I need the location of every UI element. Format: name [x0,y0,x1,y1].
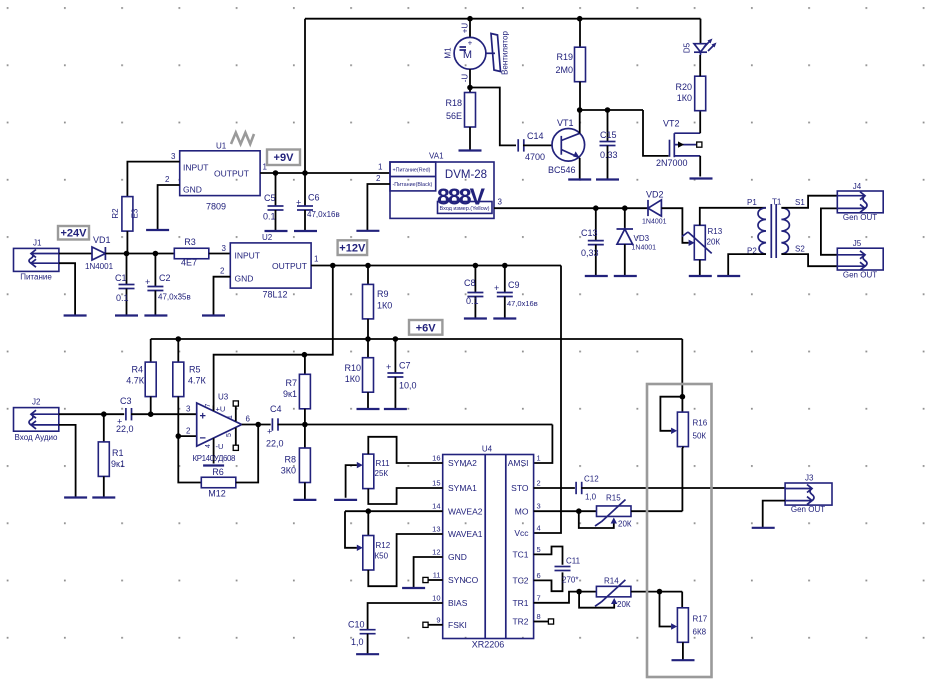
svg-text:2: 2 [376,174,381,183]
svg-text:22,0: 22,0 [266,439,284,449]
wire R13 gnd [699,260,701,276]
resistor R19 [555,19,585,110]
svg-text:TR1: TR1 [512,598,528,608]
ground R11 [334,499,357,501]
capacitor C12 [534,475,786,502]
svg-text:C8: C8 [464,278,476,288]
svg-text:3: 3 [537,502,541,511]
potentiometer R11 [346,437,443,504]
transistor VT1 BC546 [548,118,585,175]
wire collector node rail [577,107,669,156]
svg-text:М12: М12 [208,489,226,499]
svg-text:BIAS: BIAS [448,598,468,608]
svg-text:D5: D5 [683,42,692,53]
capacitor C11 [534,547,581,592]
svg-text:SYNCO: SYNCO [448,575,479,585]
svg-text:К50: К50 [375,552,389,561]
wire R16 bottom [681,448,683,511]
svg-text:TC2: TC2 [512,576,528,586]
svg-text:+6V: +6V [416,322,437,334]
svg-text:R19: R19 [556,52,573,62]
svg-text:0.1: 0.1 [116,293,129,303]
svg-text:4700: 4700 [525,152,545,162]
svg-text:16: 16 [432,454,440,463]
svg-text:13: 13 [432,525,440,534]
svg-text:1К0: 1К0 [345,374,360,384]
svg-text:9к1: 9к1 [283,389,297,399]
ground R8 [293,499,316,501]
transformer T1 [747,198,805,259]
svg-text:47,0х16в: 47,0х16в [507,299,538,308]
capacitor C9 [494,266,538,319]
svg-text:SYMA1: SYMA1 [448,483,477,493]
svg-text:VT1: VT1 [557,118,574,128]
svg-text:VA1: VA1 [429,152,444,161]
ground VD3 [614,275,637,277]
regulator U1 7809 [165,142,267,212]
resistor R4 [126,339,156,414]
svg-text:R15: R15 [606,494,621,503]
ground C1 [115,314,138,316]
svg-text:WAVEA2: WAVEA2 [448,506,483,516]
wire U1 gnd [158,185,180,230]
net +24V label [58,226,89,240]
wire +12V to opamp supply [214,266,333,411]
svg-text:GND: GND [235,274,254,284]
resistor R1 [98,414,125,497]
ground C7 [384,408,407,410]
svg-text:5: 5 [537,545,541,554]
svg-text:GND: GND [448,552,467,562]
ground C2 [144,314,167,316]
wire +24V node [105,251,174,257]
svg-text:1К0: 1К0 [377,301,392,311]
resistor R2 [111,197,140,254]
terminal SYNCO [423,577,443,582]
resistor R5 [173,339,207,439]
heatsink icon [231,133,254,144]
svg-text:+12V: +12V [339,243,366,255]
LED D5 [683,19,717,55]
svg-text:C12: C12 [584,475,599,484]
ground J2 [64,496,87,498]
wire R15 to R16 [631,510,682,512]
svg-text:R10: R10 [344,363,361,373]
svg-text:Gen OUT: Gen OUT [843,271,877,280]
svg-text:C5: C5 [264,193,276,203]
connector J1 Питание [14,239,59,282]
svg-text:1,0: 1,0 [585,493,597,502]
capacitor C5 [263,173,284,231]
svg-text:C15: C15 [600,130,617,140]
svg-text:R5: R5 [189,365,201,375]
ground U3 [203,464,224,466]
connector J4 Gen OUT [837,182,883,222]
wire M1 to C14 [470,88,516,146]
svg-text:Gen OUT: Gen OUT [843,213,877,222]
svg-text:TR2: TR2 [512,617,528,627]
wire +9V top rail [305,16,701,173]
wire U1 input [127,162,179,197]
svg-text:R7: R7 [285,378,297,388]
svg-text:VD3: VD3 [634,234,650,243]
svg-text:2N7000: 2N7000 [656,158,688,168]
svg-text:8: 8 [537,612,541,621]
wire feedback [178,436,201,482]
svg-text:+: + [468,39,473,48]
capacitor C13 [581,208,604,276]
node M1-R18 [467,85,473,91]
svg-text:STO: STO [511,483,529,493]
svg-text:1,0: 1,0 [351,637,364,647]
resistor R6 [201,467,236,499]
ground U2 [202,314,225,316]
resistor R8 [281,425,311,500]
wire WAVEA2 [345,508,443,551]
svg-text:47,0х35в: 47,0х35в [158,293,191,302]
svg-text:J1: J1 [33,239,42,248]
svg-text:20К: 20К [618,520,632,529]
svg-text:50К: 50К [693,432,707,441]
wire R17 gnd [682,642,684,660]
svg-text:C7: C7 [399,361,411,371]
svg-text:47,0х16в: 47,0х16в [307,210,340,219]
svg-text:7: 7 [205,403,212,407]
svg-text:4.7К: 4.7К [126,376,145,386]
capacitor C10 [348,620,376,655]
svg-text:1: 1 [537,454,541,463]
svg-text:R18: R18 [445,98,462,108]
motor M1 fan [444,19,510,93]
resistor R18 [445,93,475,128]
svg-text:1N4001: 1N4001 [642,219,667,226]
svg-text:10: 10 [432,594,440,603]
svg-text:C10: C10 [348,620,365,630]
svg-text:1К0: 1К0 [677,93,692,103]
ground C13 [585,275,608,277]
ground VA1 [356,230,379,232]
svg-text:R13: R13 [708,227,723,236]
svg-text:U2: U2 [262,233,273,242]
svg-text:R17: R17 [693,615,708,624]
svg-text:1: 1 [378,163,383,172]
svg-text:25К: 25К [375,469,389,478]
potentiometer R12 [363,511,443,586]
svg-text:4Е7: 4Е7 [181,258,197,268]
wire measure line [494,205,648,211]
svg-text:-Питание(Black): -Питание(Black) [393,182,433,188]
svg-text:+: + [267,427,272,437]
resistor R3 [174,237,230,268]
svg-text:0.1: 0.1 [466,296,479,306]
svg-text:R1: R1 [112,448,124,458]
ground P2 [717,275,740,277]
connector J2 Вход Аудио [14,398,59,443]
wire MO node [534,508,597,514]
diode VD2 1N4001 [642,190,667,226]
capacitor C7 [386,339,417,409]
svg-text:R14: R14 [604,577,619,586]
svg-text:C13: C13 [581,228,598,238]
wire C14 to VT1 base [523,144,552,146]
ground U4 [402,587,425,589]
wire +9V output rail [260,170,390,176]
svg-text:C3: C3 [120,396,132,406]
svg-text:0.33: 0.33 [600,150,618,160]
svg-text:4: 4 [537,524,541,533]
svg-text:14: 14 [432,502,440,511]
svg-text:+: + [296,197,301,207]
wire VT1 emitter [579,158,581,180]
wire R13 top to P1 [700,208,766,226]
op-amp U3 КР140УД608 [186,393,250,464]
capacitor C14 [518,131,545,162]
wire J4 to J5 [821,208,837,254]
ground R1 [92,496,115,498]
svg-text:R4: R4 [131,365,143,375]
svg-text:1: 1 [227,415,234,419]
wire pin2 [178,435,196,437]
resistor R9 [363,266,393,340]
wire VA1 pin2 gnd [367,184,390,231]
svg-text:3: 3 [498,198,503,207]
transistor VT2 2N7000 [656,111,702,177]
connector J5 Gen OUT [837,239,883,280]
ground C5 [265,230,288,232]
ground VT1 [568,178,591,180]
capacitor C3 [116,396,134,434]
svg-text:R2: R2 [111,208,120,219]
meter VA1 DVM-28 [376,152,502,219]
svg-text:10,0: 10,0 [399,381,417,391]
terminal TR2 [534,619,554,624]
ground VT2 [690,177,713,179]
svg-text:P1: P1 [747,198,757,207]
svg-text:VD1: VD1 [93,235,111,245]
svg-text:20К: 20К [617,600,631,609]
svg-text:3: 3 [222,244,227,253]
ground C15 [596,178,619,180]
svg-text:+: + [145,277,150,287]
wire +12V rail [311,263,561,269]
ground C10 [356,653,379,655]
svg-text:J3: J3 [805,474,814,483]
potentiometer R14 [579,577,631,610]
svg-text:R3: R3 [184,237,196,247]
svg-text:2М0: 2М0 [555,65,573,75]
svg-text:1: 1 [314,255,319,264]
svg-text:Питание: Питание [20,273,52,282]
svg-text:U1: U1 [216,142,227,151]
wire output to C4 [242,422,271,428]
ground J1 [64,314,87,316]
svg-text:C4: C4 [270,404,282,414]
svg-text:5: 5 [226,433,233,437]
wire P2 to ground [728,254,766,276]
svg-text:1N4001: 1N4001 [85,262,114,271]
svg-text:11: 11 [433,571,441,580]
wire GND pin12 [414,557,443,588]
svg-text:+24V: +24V [61,228,88,240]
wire R18 to ground [469,127,471,150]
wire input line [59,411,124,417]
svg-text:+9V: +9V [274,152,295,164]
wire J2 pin2 gnd [59,425,76,498]
svg-text:J4: J4 [853,182,862,191]
svg-text:R11: R11 [376,459,391,468]
connector J3 Gen OUT [785,474,832,515]
svg-text:КР140УД608: КР140УД608 [193,454,237,463]
svg-text:OUTPUT: OUTPUT [214,169,249,179]
potentiometer R13 [682,225,723,259]
svg-text:BC546: BC546 [548,165,576,175]
svg-text:INPUT: INPUT [235,251,261,261]
svg-text:MO: MO [515,506,529,516]
capacitor C2 [145,254,191,316]
svg-text:R16: R16 [693,419,708,428]
svg-text:AMSI: AMSI [508,458,529,468]
svg-text:R20: R20 [675,82,692,92]
svg-text:2: 2 [165,175,170,184]
wire BIAS [368,603,443,630]
svg-text:Вентилятор: Вентилятор [501,31,510,75]
wire R14 to R17 [631,589,682,608]
wire S1 to J4 [781,196,837,208]
potentiometer R16 [660,397,707,449]
svg-text:INPUT: INPUT [183,163,209,173]
resistor R7 [283,355,310,425]
svg-text:+: + [386,362,391,372]
svg-text:C11: C11 [566,557,581,566]
svg-text:2: 2 [220,267,225,276]
svg-text:7: 7 [537,593,541,602]
wire VD2 to R13 wiper [661,208,694,246]
svg-text:6К8: 6К8 [693,628,707,637]
resistor R20 [675,55,705,111]
svg-text:3: 3 [186,405,191,414]
node R16 top [680,394,686,400]
svg-text:6: 6 [246,415,251,424]
wire VT1 collector [579,110,581,133]
wire C4 to AMSI [278,422,553,463]
svg-text:C14: C14 [527,131,544,141]
terminal FSKI [423,622,443,627]
ground R17 [672,659,695,661]
net +12V label [338,240,368,255]
svg-text:56Е: 56Е [446,111,462,121]
svg-text:+Питание(Red): +Питание(Red) [393,168,431,174]
svg-text:DVM-28: DVM-28 [445,169,487,181]
regulator U2 78L12 [220,233,319,300]
wire S2 to J5 [781,254,837,266]
svg-text:FSKI: FSKI [448,620,467,630]
svg-text:22,0: 22,0 [116,424,134,434]
svg-text:4: 4 [205,444,212,448]
svg-text:C1: C1 [115,273,127,283]
svg-text:Vcc: Vcc [514,528,529,538]
svg-text:9к1: 9к1 [111,459,125,469]
svg-text:78L12: 78L12 [262,290,287,300]
svg-text:3К0: 3К0 [281,466,296,476]
capacitor C1 [115,254,135,316]
svg-text:J2: J2 [32,398,41,407]
ground C6 [294,230,317,232]
svg-text:9: 9 [436,615,440,624]
svg-text:15: 15 [432,479,440,488]
svg-text:T1: T1 [772,198,782,207]
svg-text:20К: 20К [707,238,721,247]
wire C3 to pin3 [131,411,197,417]
svg-text:U4: U4 [482,445,493,454]
svg-text:GND: GND [183,185,202,195]
svg-text:3: 3 [171,152,176,161]
svg-text:4.7К: 4.7К [188,376,207,386]
wire TR1 node [534,589,597,603]
svg-text:Е3: Е3 [131,208,140,218]
svg-text:R6: R6 [212,467,224,477]
svg-text:OUTPUT: OUTPUT [272,261,307,271]
svg-text:C2: C2 [159,273,171,283]
svg-text:6: 6 [537,571,541,580]
svg-text:+: + [494,283,499,293]
potentiometer R17 [660,592,708,643]
wire J3 pin2 gnd [763,501,785,528]
svg-text:C6: C6 [308,193,320,203]
svg-text:+U: +U [461,23,470,34]
svg-text:TC1: TC1 [512,550,528,560]
svg-text:12: 12 [432,548,440,557]
ground J3 [752,527,775,529]
wire U2 gnd [214,277,231,316]
capacitor C15 [600,110,618,180]
svg-text:WAVEA1: WAVEA1 [448,529,483,539]
potentiometer R15 [579,494,632,529]
wire J1 pin2 to ground [59,263,75,315]
wire +6V rail [151,336,683,397]
svg-text:−: − [200,433,206,445]
svg-text:VD2: VD2 [646,190,664,200]
svg-text:C9: C9 [508,280,520,290]
ground U1 [146,229,169,231]
net +9V label [267,150,300,166]
svg-text:2: 2 [186,427,191,436]
diode VD3 1N4001 [617,208,657,276]
net +6V label [409,320,442,335]
svg-text:2: 2 [537,479,541,488]
svg-text:+U: +U [216,405,226,414]
svg-text:-U: -U [216,442,224,451]
IC U4 XR2206 [432,445,541,650]
svg-text:U3: U3 [218,393,229,402]
svg-text:1N4001: 1N4001 [632,245,657,252]
wire Vcc drop [534,266,561,534]
svg-text:S1: S1 [795,198,805,207]
resistor R10 [344,339,373,409]
svg-text:888V: 888V [437,184,486,210]
svg-text:0.1: 0.1 [263,212,276,222]
svg-text:Gen OUT: Gen OUT [791,505,825,514]
ground C9 [493,317,516,319]
capacitor C8 [464,266,483,319]
ground C8 [464,317,487,319]
capacitor C4 [266,404,284,449]
svg-text:M1: M1 [444,47,453,59]
svg-text:R8: R8 [284,455,296,465]
svg-text:R12: R12 [376,541,391,550]
svg-text:SYMA2: SYMA2 [448,458,477,468]
svg-text:VT2: VT2 [663,119,680,129]
ground R10 [357,408,380,410]
